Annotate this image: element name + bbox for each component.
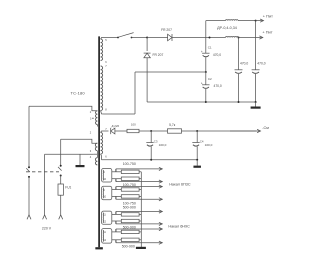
svg-text:FU1: FU1 — [65, 186, 71, 190]
svg-text:ДР-0,4-0,34: ДР-0,4-0,34 — [217, 26, 237, 30]
svg-text:500-900: 500-900 — [122, 244, 135, 248]
svg-text:100-750: 100-750 — [123, 162, 136, 166]
svg-text:470,0: 470,0 — [213, 53, 221, 57]
svg-text:500-900: 500-900 — [123, 225, 136, 229]
svg-text:ТС-180: ТС-180 — [71, 90, 86, 95]
svg-text:470,0: 470,0 — [214, 84, 222, 88]
svg-text:FR 207: FR 207 — [161, 28, 172, 32]
svg-text:470,0: 470,0 — [240, 62, 248, 66]
svg-text:C4: C4 — [200, 139, 204, 143]
svg-text:Накал 6П3С: Накал 6П3С — [169, 182, 191, 186]
svg-text:100,0: 100,0 — [205, 143, 213, 147]
svg-text:C1: C1 — [208, 46, 212, 50]
svg-text:5,7к: 5,7к — [169, 123, 176, 127]
svg-text:Накал 6Н9С: Накал 6Н9С — [168, 224, 190, 228]
svg-text:Д 226: Д 226 — [112, 124, 120, 128]
svg-text:500-900: 500-900 — [123, 206, 136, 210]
svg-text:C2: C2 — [208, 77, 212, 81]
svg-text:FR 207: FR 207 — [153, 53, 164, 57]
svg-text:+: + — [201, 82, 203, 86]
svg-text:100-750: 100-750 — [123, 183, 136, 187]
svg-text:+ Пит: + Пит — [263, 13, 273, 18]
svg-text:470,0: 470,0 — [257, 62, 265, 66]
svg-text:220 V: 220 V — [42, 227, 52, 231]
svg-text:100-750: 100-750 — [123, 201, 136, 205]
svg-text:C3: C3 — [154, 139, 158, 143]
svg-text:-См: -См — [262, 126, 269, 130]
svg-text:100: 100 — [131, 123, 136, 127]
svg-text:+: + — [201, 50, 203, 54]
svg-text:100,0: 100,0 — [159, 143, 167, 147]
svg-text:+ Пит: + Пит — [262, 30, 272, 35]
